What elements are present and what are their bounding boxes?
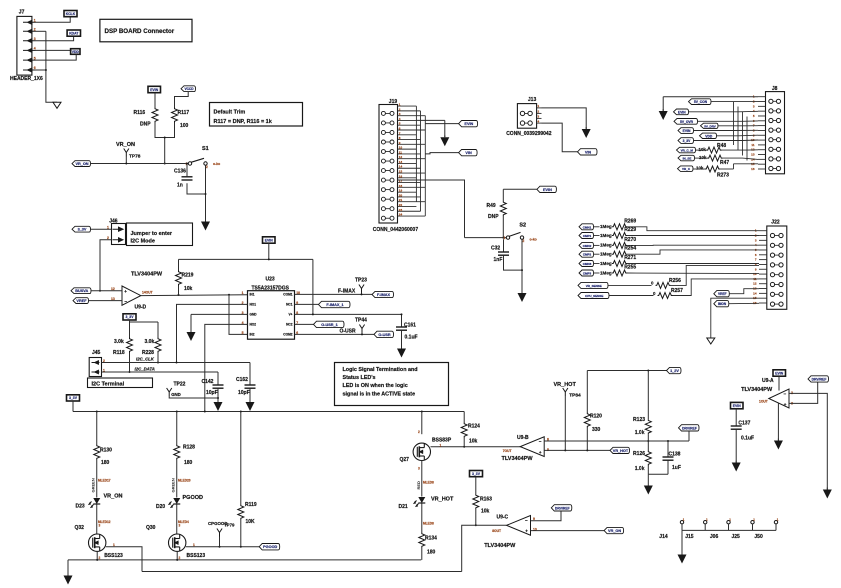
- svg-text:R163: R163: [480, 497, 492, 503]
- svg-text:C161: C161: [404, 323, 416, 329]
- net label VIN at J19: [459, 150, 478, 156]
- wire Q27 gate to U9-B out: [431, 446, 521, 448]
- capacitor C161: [401, 314, 403, 326]
- ground C142: [217, 400, 219, 403]
- wire 3_3V bus: [72, 401, 74, 412]
- svg-text:Default Trim: Default Trim: [214, 110, 246, 116]
- svg-text:Logic Signal Termination and: Logic Signal Termination and: [343, 367, 418, 373]
- svg-text:14: 14: [753, 291, 757, 295]
- svg-text:5V_DRV: 5V_DRV: [704, 124, 716, 128]
- svg-text:PGOOD: PGOOD: [263, 545, 277, 549]
- svg-text:10K: 10K: [246, 519, 256, 525]
- svg-text:D23: D23: [76, 504, 85, 510]
- net label EVIN above U23: [263, 237, 276, 243]
- wire J22 pin15 ground: [711, 298, 759, 338]
- J8 pin stubs: [758, 96, 766, 98]
- svg-text:14OUT: 14OUT: [142, 291, 153, 295]
- svg-text:BSS123: BSS123: [187, 553, 206, 559]
- svg-text:LED is ON when the logic: LED is ON when the logic: [343, 383, 408, 389]
- wire 3_3V to pullups: [129, 320, 131, 322]
- svg-text:I2C_CLK: I2C_CLK: [136, 357, 155, 362]
- J19 bus verticals: [415, 106, 417, 202]
- svg-text:VIN: VIN: [585, 150, 592, 154]
- wire COM2 to O-USR: [295, 333, 375, 335]
- net label VR_ON at U9-C: [604, 527, 624, 533]
- svg-text:IN2: IN2: [250, 333, 255, 337]
- svg-text:7OUT: 7OUT: [503, 449, 512, 453]
- svg-text:1n: 1n: [177, 183, 183, 189]
- svg-text:1OUT: 1OUT: [759, 400, 768, 404]
- svg-text:1Meg: 1Meg: [600, 270, 612, 275]
- wire D20 to Q30: [176, 505, 178, 535]
- svg-text:1: 1: [242, 291, 244, 295]
- svg-text:BSS123: BSS123: [104, 553, 123, 559]
- resistor R126: [647, 441, 649, 451]
- ground S1: [205, 219, 207, 222]
- svg-text:3_3V: 3_3V: [683, 139, 692, 143]
- resistor R270 1Meg: [579, 242, 594, 248]
- net label VDD at J8: [700, 133, 717, 138]
- svg-text:−: −: [539, 439, 542, 444]
- svg-text:NO2: NO2: [250, 323, 257, 327]
- net label DRV/REF at U9-A: [808, 376, 829, 382]
- svg-text:22: 22: [399, 203, 403, 207]
- svg-text:COM1: COM1: [283, 293, 292, 297]
- net label 3_3V bus left: [67, 395, 80, 401]
- svg-text:14: 14: [399, 165, 403, 169]
- svg-text:EVIN: EVIN: [150, 88, 158, 92]
- svg-text:O-USR: O-USR: [340, 328, 357, 334]
- svg-text:Q32: Q32: [75, 525, 85, 531]
- svg-text:F-IMAX_1: F-IMAX_1: [326, 303, 343, 307]
- svg-text:R257: R257: [671, 288, 683, 294]
- svg-text:PGOOD: PGOOD: [183, 495, 204, 501]
- resistor R130: [94, 445, 100, 460]
- capacitor C32: [503, 239, 505, 251]
- svg-text:13: 13: [751, 153, 755, 157]
- svg-text:CMN3: CMN3: [583, 262, 592, 266]
- svg-text:3_3V: 3_3V: [69, 396, 78, 400]
- svg-text:23: 23: [399, 208, 403, 212]
- net label 5V_CON: [689, 99, 712, 105]
- svg-text:TP22: TP22: [174, 382, 186, 388]
- svg-text:NO1: NO1: [250, 303, 257, 307]
- svg-text:3.0k: 3.0k: [145, 339, 155, 345]
- wire VREF to U9-D: [89, 300, 123, 302]
- svg-text:10: 10: [753, 272, 757, 276]
- svg-text:MLED8: MLED8: [423, 481, 434, 485]
- wire COM1 to F-IMAX: [295, 293, 373, 295]
- svg-text:+: +: [784, 402, 787, 407]
- resistor R123: [647, 371, 649, 420]
- wire J7 pin3 to KDATA: [36, 36, 74, 41]
- svg-text:10k: 10k: [696, 166, 704, 171]
- wire I2C_DATA: [102, 371, 219, 373]
- svg-text:VR_SENSE: VR_SENSE: [586, 284, 602, 288]
- svg-text:VCCD: VCCD: [184, 87, 194, 91]
- net label EVIN at J8 a: [674, 109, 689, 115]
- net label EVIN above R116: [148, 86, 161, 92]
- wire C136 top: [186, 164, 188, 177]
- svg-text:S2: S2: [519, 223, 526, 229]
- wire U9-C pin10 to VR_ON: [531, 530, 605, 532]
- net label F-IMAX_1: [319, 301, 351, 307]
- svg-text:11: 11: [751, 143, 755, 147]
- svg-text:EVIN: EVIN: [775, 371, 783, 375]
- svg-text:o-ko: o-ko: [213, 162, 220, 166]
- wire U9-C output to rail2: [462, 525, 507, 571]
- svg-text:TLV3404PW: TLV3404PW: [131, 272, 163, 278]
- svg-text:10k: 10k: [699, 147, 707, 152]
- net label VDD: [71, 49, 80, 55]
- svg-text:CMP1: CMP1: [583, 234, 592, 238]
- svg-text:VR_ON: VR_ON: [608, 529, 621, 533]
- svg-text:EVIN: EVIN: [678, 110, 686, 114]
- net label 5V_OVR: [674, 119, 698, 125]
- svg-text:S1: S1: [202, 146, 209, 152]
- svg-text:4: 4: [34, 47, 36, 51]
- svg-text:DRV/REF: DRV/REF: [555, 506, 570, 510]
- ground C161: [401, 346, 403, 349]
- wire J19 pin16 to S2: [398, 180, 465, 238]
- wire Q32 source: [96, 551, 98, 560]
- svg-text:CMP2: CMP2: [583, 253, 592, 257]
- svg-text:EVIN: EVIN: [683, 129, 691, 133]
- ground J13: [585, 127, 587, 129]
- resistor R255 1Meg: [579, 270, 594, 276]
- svg-text:NC2: NC2: [286, 323, 293, 327]
- svg-text:DRV/REF: DRV/REF: [682, 426, 697, 430]
- wire U9-A gnd stem: [777, 404, 779, 441]
- jumpers J14 J15 J06 J25 J50: [680, 521, 683, 524]
- net label VR_SENSE resistor R256: [578, 282, 608, 288]
- net label EVIN above U9-A: [773, 370, 786, 376]
- svg-text:EVIN: EVIN: [265, 238, 273, 242]
- wire Q32 drain to rail2: [106, 547, 142, 572]
- net label 3_3V above R163: [470, 471, 483, 477]
- svg-text:0.1uF: 0.1uF: [405, 335, 418, 341]
- svg-text:GND: GND: [250, 313, 258, 317]
- svg-text:MLED8: MLED8: [423, 522, 434, 526]
- svg-text:−: −: [124, 299, 127, 304]
- wire U9-B pin5: [544, 449, 610, 451]
- svg-text:VDD: VDD: [72, 50, 80, 54]
- svg-text:2: 2: [523, 239, 525, 243]
- net label VREF: [73, 298, 89, 304]
- svg-text:VR_HOT: VR_HOT: [431, 497, 454, 503]
- wire VR_ON to S1: [91, 163, 189, 165]
- svg-text:3_3V: 3_3V: [472, 472, 481, 476]
- net label VIN at J13: [578, 149, 598, 155]
- wire EVIN to R49: [503, 188, 537, 190]
- svg-text:R271: R271: [624, 255, 636, 261]
- svg-text:U9-C: U9-C: [497, 515, 509, 521]
- wire J7 pin1 to KCLK: [36, 17, 71, 23]
- note box Logic Signal Termination: [335, 363, 449, 406]
- wire branch1 top: [96, 412, 98, 445]
- svg-text:+: +: [124, 289, 127, 294]
- resistor R49: [500, 201, 506, 216]
- svg-text:21: 21: [399, 198, 403, 202]
- svg-text:COM2: COM2: [283, 333, 292, 337]
- svg-text:−: −: [784, 391, 787, 396]
- capacitor C137: [735, 409, 737, 426]
- svg-text:CONN_0442060007: CONN_0442060007: [373, 227, 419, 233]
- wire J19 to EVIN: [416, 119, 444, 121]
- svg-text:MLED17: MLED17: [98, 479, 111, 483]
- svg-text:VR_HOT: VR_HOT: [613, 449, 629, 453]
- wire U9-B pin6: [544, 440, 689, 442]
- net label EVIN at J19: [459, 121, 478, 127]
- wire branch to U23 IN2: [229, 295, 248, 335]
- svg-text:12: 12: [753, 282, 757, 286]
- svg-text:C138: C138: [669, 452, 681, 458]
- svg-text:10pF: 10pF: [238, 390, 250, 396]
- svg-text:signal is in the ACTIVE state: signal is in the ACTIVE state: [343, 392, 416, 398]
- svg-text:R128: R128: [183, 445, 195, 451]
- wire 1_2V rail: [587, 370, 666, 372]
- svg-text:NC1: NC1: [286, 303, 293, 307]
- svg-text:R123: R123: [633, 417, 645, 423]
- svg-text:O-USR: O-USR: [378, 333, 390, 337]
- wire U23 NO1 to I2C_CLK: [177, 304, 248, 362]
- svg-text:U9-D: U9-D: [135, 305, 147, 311]
- svg-text:TLV3404PW: TLV3404PW: [741, 387, 773, 393]
- svg-text:1Meg: 1Meg: [600, 224, 612, 229]
- svg-text:MLED20: MLED20: [178, 479, 191, 483]
- svg-text:330: 330: [592, 427, 601, 433]
- svg-text:J15: J15: [685, 534, 694, 540]
- svg-text:10k: 10k: [469, 439, 478, 445]
- wire BUSVA to U9-D: [91, 290, 122, 292]
- resistor R254 1Meg: [579, 251, 594, 257]
- ground J7: [53, 102, 61, 108]
- wire J19 to VIN: [425, 153, 458, 154]
- wire NC1 stub: [295, 303, 319, 305]
- svg-text:3: 3: [179, 524, 181, 528]
- svg-text:I2C Mode: I2C Mode: [131, 239, 155, 245]
- wire U9-A pin3 to DRV/REF: [789, 382, 818, 403]
- svg-text:24: 24: [399, 213, 403, 217]
- svg-text:R117: R117: [178, 110, 190, 116]
- J19 pin stubs: [398, 105, 417, 107]
- svg-text:180: 180: [101, 460, 110, 466]
- svg-text:J06: J06: [710, 534, 719, 540]
- svg-text:TP44: TP44: [355, 318, 367, 324]
- svg-text:Jumper to enter: Jumper to enter: [131, 231, 173, 237]
- wire R219 top: [178, 259, 180, 270]
- svg-text:3: 3: [99, 524, 101, 528]
- svg-text:KCLK: KCLK: [66, 12, 76, 16]
- capacitor C162: [249, 363, 251, 385]
- net label IN_SE resistor R47: [678, 155, 695, 161]
- wire J7 pin6 gnd: [36, 69, 46, 71]
- net label PGOOD: [259, 544, 280, 550]
- svg-text:CMN2: CMN2: [583, 244, 592, 248]
- wire rail2: [142, 571, 462, 573]
- wire R117 top: [175, 92, 189, 108]
- resistor R134: [419, 533, 425, 548]
- wire U23 GND: [191, 313, 248, 315]
- svg-text:TP78: TP78: [129, 154, 141, 160]
- svg-text:J50: J50: [754, 534, 763, 540]
- svg-text:TP84: TP84: [569, 393, 581, 399]
- svg-text:3_3V: 3_3V: [126, 315, 135, 319]
- resistor R163: [475, 477, 477, 494]
- ground J8 pin1: [662, 109, 664, 111]
- svg-text:R116: R116: [134, 110, 146, 116]
- svg-text:1nF: 1nF: [494, 257, 503, 263]
- wire U23 V+: [295, 313, 402, 315]
- wire Q27 top: [421, 412, 423, 435]
- net label O-USR: [374, 331, 394, 337]
- svg-text:C162: C162: [236, 377, 248, 383]
- ground J22 pin15: [707, 338, 715, 344]
- wire U9-D output: [141, 294, 248, 297]
- net label 3_3V at J46: [72, 226, 91, 232]
- svg-text:R229: R229: [624, 227, 636, 233]
- svg-text:+: +: [539, 450, 542, 455]
- wire S1 down: [205, 165, 207, 221]
- wire J7 pin5: [36, 55, 77, 61]
- svg-text:C142: C142: [202, 379, 214, 385]
- svg-text:12: 12: [399, 155, 403, 159]
- svg-text:EVIN: EVIN: [733, 404, 741, 408]
- svg-text:18: 18: [399, 184, 403, 188]
- ground U9-A pin2 wire: [826, 488, 828, 490]
- resistor R116: [152, 108, 158, 123]
- svg-text:R228: R228: [142, 350, 154, 356]
- net label F-IMAX: [372, 291, 394, 297]
- ground U9-A: [777, 439, 779, 441]
- svg-text:D21: D21: [399, 504, 408, 510]
- ground rail1: [67, 560, 69, 576]
- capacitor C136: [182, 176, 193, 178]
- svg-text:F-IMAX: F-IMAX: [377, 293, 391, 297]
- svg-text:VR_HOT: VR_HOT: [554, 382, 577, 388]
- svg-text:R255: R255: [624, 265, 636, 271]
- net label O-USR_1: [314, 321, 345, 327]
- svg-text:3_3V: 3_3V: [78, 228, 87, 232]
- svg-text:F-IMAX: F-IMAX: [338, 289, 356, 295]
- svg-text:I2C Terminal: I2C Terminal: [92, 382, 125, 388]
- svg-text:GREEN: GREEN: [171, 478, 176, 492]
- svg-text:11: 11: [399, 150, 403, 154]
- svg-text:GND: GND: [171, 392, 181, 397]
- resistor R271 1Meg: [579, 261, 594, 267]
- svg-text:DSP BOARD Connector: DSP BOARD Connector: [105, 28, 175, 35]
- svg-text:VREF: VREF: [718, 292, 727, 296]
- svg-text:3: 3: [34, 37, 36, 41]
- svg-text:R269: R269: [624, 218, 636, 224]
- svg-text:1Meg: 1Meg: [600, 261, 612, 266]
- wire trim junction: [155, 123, 175, 138]
- net label DRV/REF above U9-B: [679, 425, 700, 431]
- svg-text:IN_SE: IN_SE: [683, 157, 692, 161]
- wire R116 top: [154, 93, 156, 108]
- svg-text:1_2V: 1_2V: [670, 369, 679, 373]
- wire U9-C pin9 to DRV/REF: [531, 511, 562, 521]
- svg-text:13: 13: [399, 160, 403, 164]
- svg-text:R219: R219: [182, 273, 194, 279]
- svg-text:BSS83P: BSS83P: [432, 438, 452, 444]
- svg-text:16: 16: [751, 167, 755, 171]
- resistor R219: [176, 271, 182, 286]
- svg-text:VR_C: VR_C: [682, 167, 691, 171]
- wire 3_3V to J46 pin1: [91, 228, 112, 230]
- svg-text:19: 19: [399, 189, 403, 193]
- svg-text:TP23: TP23: [355, 278, 367, 284]
- net label CPU_SENSE resistor R257: [578, 293, 609, 299]
- svg-text:D20: D20: [156, 504, 165, 510]
- svg-text:J7: J7: [19, 10, 25, 16]
- svg-text:CPU_SENSE: CPU_SENSE: [585, 294, 603, 298]
- capacitor C142: [217, 372, 219, 385]
- svg-text:1Meg: 1Meg: [600, 233, 612, 238]
- svg-text:5: 5: [242, 331, 244, 335]
- svg-text:180: 180: [184, 460, 193, 466]
- svg-text:8OUT: 8OUT: [492, 529, 501, 533]
- wire NC2 stub: [295, 323, 314, 325]
- svg-text:R117 = DNP, R116 = 1k: R117 = DNP, R116 = 1k: [214, 119, 273, 125]
- net label DRV/REF at U9-C: [551, 505, 572, 511]
- svg-text:BUSVA: BUSVA: [75, 289, 88, 293]
- svg-text:100: 100: [180, 123, 189, 129]
- svg-text:DRV/REF: DRV/REF: [812, 377, 827, 381]
- svg-text:3: 3: [418, 467, 420, 471]
- net label VCCD above R117: [181, 86, 196, 92]
- net label EVIN above C137: [731, 402, 744, 408]
- net label VR_C resistor R273: [678, 166, 694, 172]
- svg-text:R49: R49: [487, 203, 496, 209]
- svg-text:CMN1: CMN1: [583, 225, 592, 229]
- svg-text:R124: R124: [468, 424, 480, 430]
- wire D23 to Q32: [96, 505, 98, 535]
- wire Q30 drain to PGOOD: [186, 546, 259, 548]
- svg-text:VR_ON: VR_ON: [75, 162, 88, 166]
- svg-text:1uF: 1uF: [672, 465, 681, 471]
- wire branch2 top: [176, 412, 178, 445]
- resistor R269 1Meg: [579, 224, 594, 230]
- svg-text:J13: J13: [528, 97, 537, 103]
- net label IMON at J22: [714, 301, 729, 307]
- svg-text:10k: 10k: [481, 509, 490, 515]
- wire R119 top: [240, 412, 242, 505]
- svg-text:EVIN: EVIN: [464, 122, 473, 126]
- net label KDATA: [67, 30, 80, 36]
- svg-text:I2C_DATA: I2C_DATA: [135, 367, 155, 372]
- svg-text:J45: J45: [92, 350, 101, 356]
- svg-text:180: 180: [427, 550, 436, 556]
- net label 3_3V at J8: [678, 138, 694, 144]
- svg-text:Q30: Q30: [146, 525, 156, 531]
- svg-text:1: 1: [113, 543, 115, 547]
- ground R126: [647, 474, 649, 485]
- J8 bus verticals: [733, 102, 735, 145]
- wire J8 pin1 gnd: [663, 96, 758, 98]
- svg-text:10: 10: [399, 146, 403, 150]
- svg-text:KDAT: KDAT: [69, 31, 79, 35]
- ground S2: [521, 291, 523, 293]
- svg-text:1Meg: 1Meg: [600, 243, 612, 248]
- svg-text:VR_C_M: VR_C_M: [681, 149, 694, 153]
- svg-text:5: 5: [34, 56, 36, 60]
- svg-text:HEADER_1X6: HEADER_1X6: [10, 76, 43, 82]
- net label VR_HOT at U9-B: [610, 447, 630, 453]
- svg-text:o-ko: o-ko: [530, 238, 537, 242]
- svg-text:1: 1: [34, 19, 36, 23]
- svg-text:10k: 10k: [184, 286, 193, 292]
